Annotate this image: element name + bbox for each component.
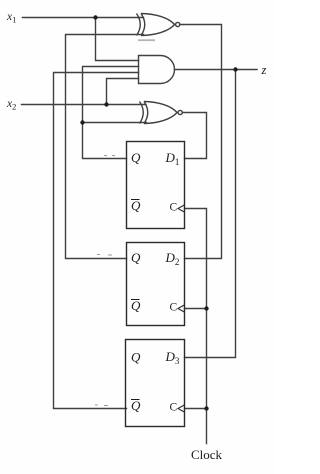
svg-text:C: C [170, 302, 178, 314]
svg-text:D1: D1 [165, 150, 180, 167]
svg-text:Q: Q [131, 298, 141, 313]
svg-text:z: z [261, 63, 267, 77]
svg-text:Q: Q [131, 250, 141, 265]
svg-text:C: C [170, 402, 178, 414]
svg-text:Q: Q [131, 150, 141, 165]
svg-text:Clock: Clock [191, 447, 223, 462]
svg-text:x1: x1 [6, 11, 16, 25]
svg-text:Q: Q [131, 349, 141, 364]
svg-text:Q: Q [131, 398, 141, 413]
svg-text:C: C [170, 202, 178, 214]
svg-text:Q: Q [131, 198, 141, 213]
svg-text:D2: D2 [165, 250, 180, 267]
svg-text:D3: D3 [165, 349, 180, 366]
svg-text:x2: x2 [6, 98, 16, 112]
